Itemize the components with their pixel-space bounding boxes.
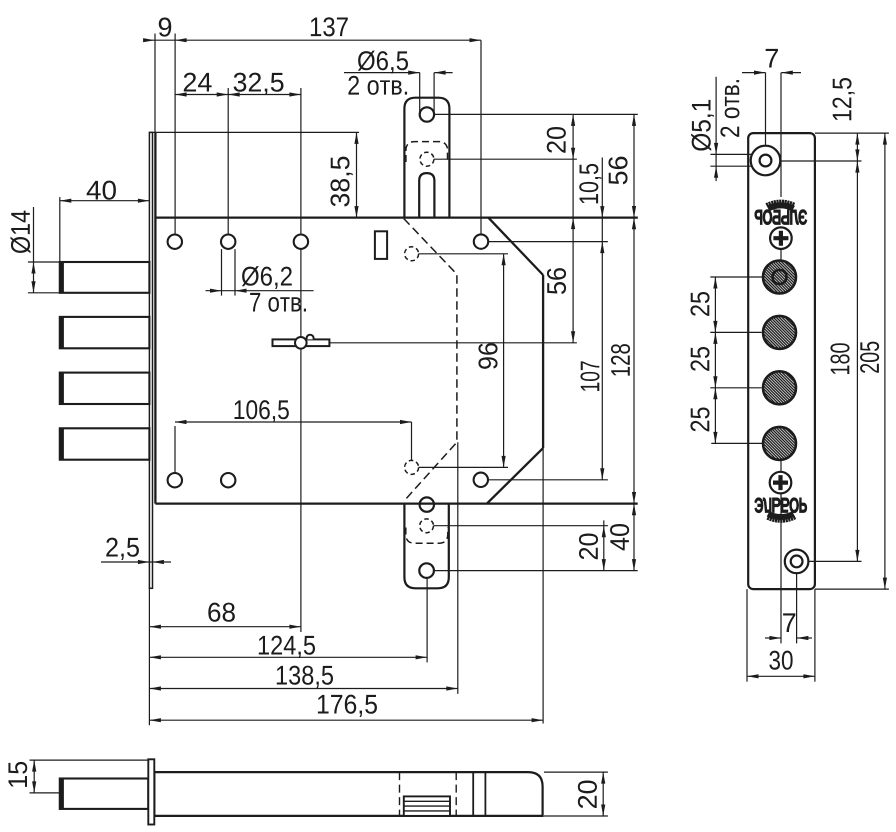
hole 1 <box>168 235 182 249</box>
bottom bracket upper hole <box>420 497 434 511</box>
bottom view body <box>154 772 542 816</box>
lock body outline <box>154 132 156 503</box>
dimension arrowheads (bottom view) <box>32 760 36 772</box>
faceplate screw lower <box>770 472 792 494</box>
hatched bolt holes <box>763 261 796 294</box>
hole 6 <box>221 473 235 487</box>
faceplate top screw hole <box>751 146 781 176</box>
bottom bracket dashed hole <box>420 519 434 533</box>
dimension and extension lines (right view) <box>742 72 766 74</box>
bolt 2 <box>60 317 150 348</box>
latch spring block <box>404 796 450 816</box>
logo ELBOR lower (rotated 180) <box>755 498 807 523</box>
dashed hole upper <box>405 247 419 261</box>
bottom view dashed hidden lines <box>399 772 401 816</box>
dimension arrowheads (right view) <box>754 71 766 75</box>
hole 3 <box>294 235 308 249</box>
top mounting bracket <box>404 98 449 218</box>
bottom view internal edges <box>472 772 474 816</box>
faceplate bottom screw hole <box>785 550 809 574</box>
top bracket hole <box>420 107 434 121</box>
bolt 1 <box>60 262 150 293</box>
top bracket dashed hole <box>420 152 434 166</box>
top bracket dashed strike outline <box>406 142 448 162</box>
hole 5 <box>168 473 182 487</box>
small rectangular slot <box>375 231 387 259</box>
dimension labels (bottom view) <box>8 762 27 787</box>
hidden internal outline (dashed) <box>404 219 457 502</box>
dimension labels (right view) <box>766 49 778 68</box>
hole 4 <box>474 234 488 248</box>
faceplate front view <box>748 133 815 589</box>
dimension and extension lines (bottom view) <box>30 759 149 761</box>
hole 2 <box>221 235 235 249</box>
bottom mounting bracket <box>404 504 448 589</box>
hole 7 <box>474 473 488 487</box>
lock faceplate strip (edge view) <box>149 132 152 588</box>
top bracket slot <box>419 173 434 218</box>
bolt 4 <box>60 428 150 459</box>
bolt 3 <box>60 373 150 404</box>
bottom view faceplate flange <box>148 759 154 824</box>
dimension and extension lines (main view) <box>144 39 481 41</box>
dimension arrowheads (main view) <box>143 38 155 42</box>
dashed hole lower <box>405 460 419 474</box>
dimension labels (main view) <box>159 18 171 37</box>
faceplate screw upper <box>770 227 792 249</box>
bottom view bolt <box>60 779 149 809</box>
key lever <box>273 339 330 346</box>
bottom bracket dashed strike outline <box>406 528 448 544</box>
logo ELBOR upper (mirrored) <box>755 200 807 225</box>
bottom bracket lower hole <box>419 563 434 578</box>
